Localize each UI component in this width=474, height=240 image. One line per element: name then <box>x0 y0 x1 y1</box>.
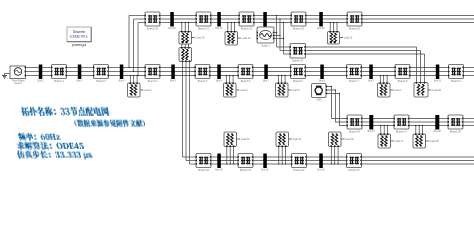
svg-text:Bus 10: Bus 10 <box>434 80 442 82</box>
svg-text:Load 22: Load 22 <box>344 37 353 40</box>
svg-text:Scope 1: Scope 1 <box>261 44 270 47</box>
svg-text:Bus 5: Bus 5 <box>170 80 177 82</box>
row M wire bundle <box>26 67 40 69</box>
load Load 5 (row M) <box>277 76 279 84</box>
row D wire bundle <box>211 156 218 158</box>
row D branch blocks <box>196 154 211 168</box>
row D bus bars <box>217 154 221 169</box>
svg-text:Load 25: Load 25 <box>432 89 441 92</box>
svg-text:Branch 26: Branch 26 <box>349 130 361 133</box>
svg-text:Bus 4: Bus 4 <box>119 80 126 82</box>
load Load 19 (row T, upper of stack) <box>181 23 183 32</box>
load Load 4 (row M) <box>225 76 227 84</box>
row B branch blocks <box>347 115 362 129</box>
svg-text:Discrete: Discrete <box>73 30 86 34</box>
svg-text:Load 20: Load 20 <box>242 37 251 40</box>
row B bus bars <box>369 115 373 130</box>
wire VM1 to riser junctions <box>274 32 276 34</box>
svg-text:Branch 33: Branch 33 <box>349 169 361 172</box>
row T bus bars <box>170 12 174 27</box>
row T branch blocks T1-T5 <box>145 12 160 26</box>
svg-text:ASM: ASM <box>317 99 322 102</box>
load Load 7 (row M) <box>379 76 381 84</box>
svg-text:Branch 6: Branch 6 <box>293 80 303 83</box>
three-phase V-I measurement VM1 <box>257 27 274 43</box>
annotation text (blue) <box>21 107 110 117</box>
row S long wires to load 25 riser <box>306 46 417 48</box>
svg-text:Branch 32: Branch 32 <box>294 169 306 172</box>
svg-text:Load 2: Load 2 <box>144 89 152 92</box>
svg-text:Branch 1: Branch 1 <box>54 80 64 83</box>
svg-text:Load 28: Load 28 <box>430 140 439 143</box>
svg-text:Branch 7: Branch 7 <box>349 80 359 83</box>
branch block T19b (lower of stack, feeds row D) <box>181 44 183 48</box>
row B wire bundle <box>362 118 370 120</box>
svg-text:Branch 23: Branch 23 <box>292 59 304 62</box>
svg-text:Branch 22: Branch 22 <box>241 27 253 30</box>
wire bus T3 down to row S <box>276 16 278 48</box>
svg-text:Bus 31: Bus 31 <box>261 169 269 171</box>
svg-text:Bus 19: Bus 19 <box>168 28 176 30</box>
svg-text:Branch 5: Branch 5 <box>241 80 251 83</box>
svg-text:Bus 8: Bus 8 <box>319 80 326 82</box>
svg-text:Load 19: Load 19 <box>196 37 205 40</box>
svg-text:Load 7: Load 7 <box>394 89 402 92</box>
svg-text:Branch 30: Branch 30 <box>198 169 210 172</box>
svg-text:Load 4: Load 4 <box>240 89 248 92</box>
svg-text:Load 27: Load 27 <box>395 140 404 143</box>
svg-text:Branch 3: Branch 3 <box>148 80 158 83</box>
row T wire bundle <box>160 15 171 17</box>
svg-text:Bus 3: Bus 3 <box>77 80 84 82</box>
svg-text:Bus 27: Bus 27 <box>368 131 376 133</box>
svg-text:Branch 27: Branch 27 <box>396 130 408 133</box>
svg-text:Source: Source <box>14 82 22 85</box>
svg-text:powergui: powergui <box>72 43 87 47</box>
load Load 2 (row M) <box>129 76 131 84</box>
distributed source M1 (under bus 6) <box>312 84 327 98</box>
load Load 28 (row B) <box>415 126 417 135</box>
svg-text:Load 32: Load 32 <box>345 138 354 141</box>
svg-text:Bus 32: Bus 32 <box>317 169 325 171</box>
svg-text:Branch 20: Branch 20 <box>147 27 159 30</box>
svg-text:Load 5: Load 5 <box>292 89 300 92</box>
load Load 31 (row D, above wires) <box>278 147 280 165</box>
row M branch blocks B1-B9 <box>52 65 67 79</box>
load Load 32 (row D, above wires) <box>330 147 332 165</box>
row M bus bars <box>39 65 43 80</box>
svg-text:Branch 31: Branch 31 <box>240 169 252 172</box>
svg-text:Bus 28: Bus 28 <box>434 131 442 133</box>
svg-text:Branch 23: Branch 23 <box>293 27 305 30</box>
svg-text:Branch 4: Branch 4 <box>198 80 208 83</box>
svg-text:Load 30: Load 30 <box>241 138 250 141</box>
load Load 20 (row T) <box>227 23 229 32</box>
svg-text:Bus 22: Bus 22 <box>317 28 325 30</box>
three-phase source block G1 <box>10 66 26 79</box>
ground <box>5 73 11 75</box>
wire riser from T19b down to row D <box>182 62 184 158</box>
svg-text:Bus 9: Bus 9 <box>368 80 375 82</box>
svg-text:Bus 2: Bus 2 <box>38 80 45 82</box>
svg-text:3.333e-05 s.: 3.333e-05 s. <box>70 35 89 39</box>
load Load 25 (terminal of row S) <box>414 83 428 98</box>
load Load 30 (row D, above wires) <box>226 147 228 165</box>
svg-text:Bus 6: Bus 6 <box>216 80 223 82</box>
load Load 22 (row T) <box>329 23 331 32</box>
wire M1 to row B <box>327 87 347 119</box>
powergui block <box>67 27 91 42</box>
svg-text:Bus 20: Bus 20 <box>215 28 223 30</box>
svg-text:Branch 21: Branch 21 <box>198 27 210 30</box>
svg-text:Branch 28: Branch 28 <box>450 130 462 133</box>
svg-text:Branch 8: Branch 8 <box>398 80 408 83</box>
svg-text:Three-Phase: Three-Phase <box>11 79 25 82</box>
svg-text:Bus 30: Bus 30 <box>215 169 223 171</box>
svg-text:Bus 7: Bus 7 <box>263 80 270 82</box>
svg-text:Branch 24: Branch 24 <box>349 27 361 30</box>
row S branch block S1 <box>290 44 306 59</box>
wire riser bus2 to row T <box>128 16 130 68</box>
svg-text:Branch 9: Branch 9 <box>451 80 461 83</box>
svg-text:Branch 2: Branch 2 <box>96 80 106 83</box>
svg-text:Load 31: Load 31 <box>293 138 302 141</box>
load Load 27 (row B) <box>380 126 382 135</box>
